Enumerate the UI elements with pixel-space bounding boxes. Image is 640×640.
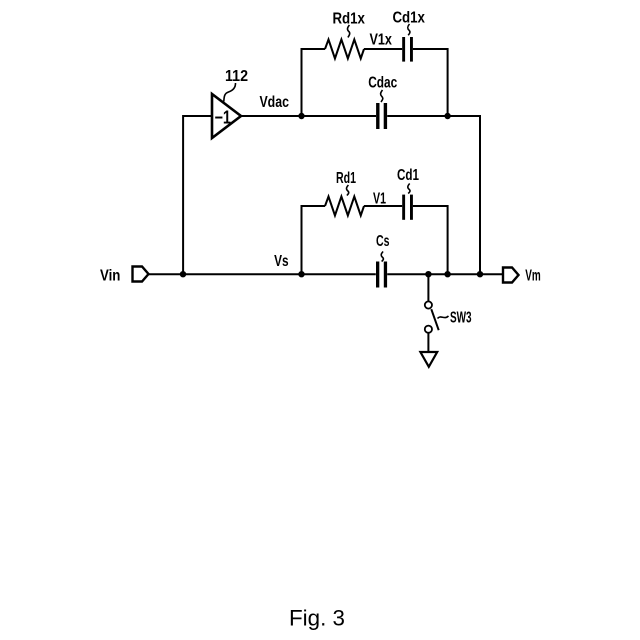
- svg-text:Rd1x: Rd1x: [332, 11, 365, 28]
- svg-text:Vin: Vin: [100, 268, 120, 285]
- svg-text:112: 112: [225, 68, 248, 85]
- svg-text:SW3: SW3: [450, 310, 472, 327]
- svg-text:Cdac: Cdac: [368, 75, 397, 92]
- svg-text:Vdac: Vdac: [259, 94, 289, 111]
- svg-text:Rd1: Rd1: [336, 170, 356, 187]
- svg-text:Cs: Cs: [376, 233, 390, 250]
- svg-text:−1: −1: [214, 107, 231, 127]
- svg-text:Vm: Vm: [525, 268, 541, 285]
- svg-text:Vs: Vs: [274, 253, 289, 270]
- svg-text:Cd1x: Cd1x: [392, 10, 425, 27]
- svg-text:Fig. 3: Fig. 3: [289, 605, 345, 630]
- svg-text:Cd1: Cd1: [397, 167, 419, 184]
- svg-text:V1: V1: [373, 191, 386, 208]
- svg-text:V1x: V1x: [369, 32, 392, 49]
